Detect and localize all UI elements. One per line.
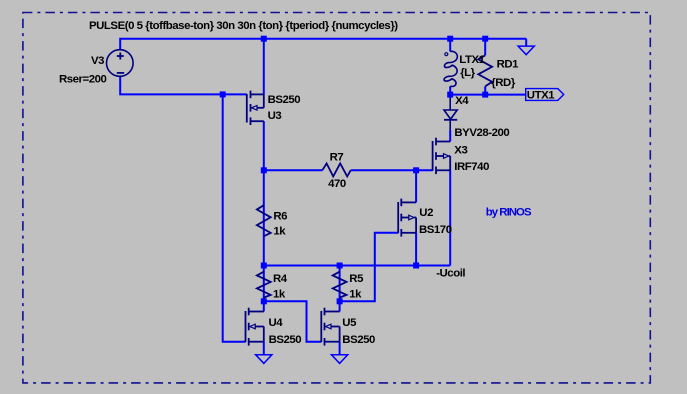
svg-text:U2: U2: [419, 207, 433, 219]
wire X4 to X3: [449, 130, 451, 142]
p-mosfet U4 (BS250, gate lead at bottom): [246, 308, 264, 346]
wire U2 drain up to R7 node: [415, 170, 417, 202]
wire U2 source down to -Ucoil bus: [415, 233, 417, 266]
resistor RD1: [478, 55, 492, 86]
node junction LTX1 bottom: [447, 92, 453, 98]
inductor LTX1: [444, 51, 457, 86]
svg-text:R7: R7: [330, 152, 344, 164]
node junction R4 bottom: [261, 298, 267, 304]
node junction bus R6/R4: [261, 263, 267, 269]
voltage source V3: [107, 50, 134, 77]
svg-text:1k: 1k: [273, 289, 286, 301]
node junction bus R5: [337, 263, 343, 269]
svg-text:U5: U5: [342, 317, 357, 329]
ground top right: [518, 46, 534, 55]
svg-text:1k: 1k: [273, 226, 286, 238]
svg-text:X3: X3: [454, 145, 467, 157]
svg-text:LTX1: LTX1: [459, 54, 485, 66]
wire U4 source to ground: [263, 342, 265, 355]
svg-text:R6: R6: [273, 210, 287, 222]
svg-text:IRF740: IRF740: [454, 161, 489, 173]
wire U5 source to ground: [339, 342, 341, 355]
node junction bus U2 source: [413, 263, 419, 269]
svg-text:Rser=200: Rser=200: [59, 73, 107, 85]
wire UTX1 net: [450, 94, 526, 96]
n-mosfet X3 (IRF740, gate lead at bottom): [433, 138, 451, 174]
wire X3 source down to bus corner: [449, 170, 451, 265]
resistor R6: [257, 205, 271, 236]
svg-text:{RD}: {RD}: [491, 77, 516, 89]
svg-text:BS170: BS170: [419, 224, 452, 236]
wire R5 column: [339, 266, 341, 302]
wire left vertical to U4 gate: [223, 94, 246, 341]
wire R7 right to X3 gate: [351, 169, 433, 171]
node junction R7 right: [413, 167, 419, 173]
wire R6 column: [263, 170, 265, 265]
svg-text:PULSE(0 5 {toffbase-ton} 30n 3: PULSE(0 5 {toffbase-ton} 30n 30n {ton} {…: [89, 20, 398, 32]
ground under U5: [332, 355, 348, 364]
resistor R5: [333, 272, 347, 298]
p-mosfet U3 (BS250, gate lead at top): [247, 91, 264, 125]
svg-text:R5: R5: [349, 273, 364, 285]
wire R4 column: [263, 266, 265, 302]
resistor R7: [322, 163, 350, 176]
wire RD1 stubs: [484, 39, 486, 56]
svg-text:BS250: BS250: [268, 94, 301, 106]
wire U3 drain down to R7 node: [263, 121, 265, 170]
svg-text:BS250: BS250: [269, 334, 302, 346]
p-mosfet U5 (BS250, gate lead at bottom): [321, 308, 339, 346]
wire U3 source up to top bus: [263, 39, 265, 95]
svg-text:U3: U3: [268, 110, 282, 122]
wire ground stub top right: [525, 39, 527, 46]
node junction R7 left: [261, 167, 267, 173]
svg-text:by RINOS: by RINOS: [486, 206, 532, 218]
wire U5 drain stub: [339, 301, 341, 311]
resistor R4: [257, 272, 271, 298]
diode X4: [444, 97, 457, 130]
svg-text:U4: U4: [269, 317, 284, 329]
node junction RD1 bottom: [482, 92, 488, 98]
svg-text:X4: X4: [455, 95, 469, 107]
wire LTX1 bottom stub: [449, 86, 451, 97]
svg-text:RD1: RD1: [497, 58, 520, 70]
wire V3 bottom to U3 gate: [120, 77, 247, 95]
svg-text:BS250: BS250: [342, 334, 375, 346]
svg-text:BYV28-200: BYV28-200: [454, 127, 509, 139]
wire -Ucoil bus: [264, 265, 450, 267]
svg-text:V3: V3: [91, 55, 104, 67]
output flag UTX1: [526, 89, 564, 101]
svg-text:470: 470: [328, 178, 346, 190]
svg-text:{L}: {L}: [460, 67, 475, 79]
wire R7 left node to resistor: [264, 169, 323, 171]
wire R4 bottom to U5 gate: [264, 301, 322, 341]
node junction R5 bottom: [337, 298, 343, 304]
wire U4 drain stub: [263, 301, 265, 311]
svg-text:R4: R4: [273, 273, 288, 285]
wire LTX1 top stub: [449, 39, 451, 52]
node junction top bus / LTX1: [447, 36, 453, 42]
node junction top bus / U3 source: [261, 36, 267, 42]
ground under U4: [256, 355, 272, 364]
node junction top bus / RD1: [482, 36, 488, 42]
wire U2 gate to R5 bottom node: [340, 233, 399, 301]
node junction V3 bottom wire: [220, 91, 226, 97]
svg-text:UTX1: UTX1: [527, 90, 555, 102]
svg-text:-Ucoil: -Ucoil: [436, 267, 465, 279]
n-mosfet U2 (BS170, gate lead at bottom): [398, 199, 416, 237]
wire top bus from V3 to ground: [120, 39, 526, 50]
svg-text:1k: 1k: [349, 289, 362, 301]
